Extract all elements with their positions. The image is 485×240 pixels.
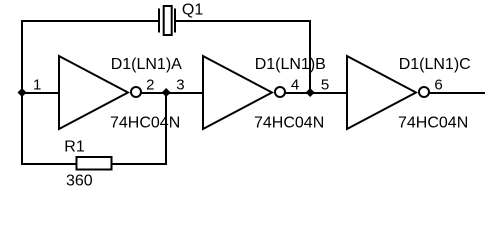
svg-text:2: 2: [146, 76, 154, 93]
svg-text:5: 5: [321, 76, 329, 93]
svg-text:6: 6: [434, 76, 442, 93]
svg-text:74HC04N: 74HC04N: [398, 115, 468, 132]
svg-text:74HC04N: 74HC04N: [110, 115, 180, 132]
svg-text:D1(LN1)A: D1(LN1)A: [111, 56, 182, 73]
wire bottom (through R1): [21, 163, 167, 165]
svg-text:74HC04N: 74HC04N: [254, 115, 324, 132]
wire top right (crystal to pin5 node): [175, 20, 311, 22]
wire net pin4-pin5: [285, 92, 348, 94]
svg-text:D1(LN1)B: D1(LN1)B: [255, 56, 326, 73]
wire top left (to crystal): [21, 20, 159, 22]
wire pin1 input net: [21, 92, 60, 94]
wire right vertical down to pin4-5 junction: [309, 20, 311, 94]
wire pin6 output net: [429, 92, 485, 94]
crystal Q1 left plate: [158, 9, 160, 33]
inverter U1A output bubble: [131, 87, 141, 97]
junction node pin3: [162, 88, 171, 97]
svg-text:1: 1: [33, 76, 41, 93]
crystal Q1 right plate: [174, 9, 176, 33]
op-amp inverter U1A triangle: [59, 56, 128, 129]
op-amp inverter U1C triangle: [347, 56, 416, 129]
svg-text:D1(LN1)C: D1(LN1)C: [399, 56, 471, 73]
resistor R1 body: [77, 157, 112, 170]
wire net pin2-pin3: [141, 92, 204, 94]
wire mid vertical (pin3 node down to R1): [165, 92, 167, 165]
junction node pin1: [18, 88, 27, 97]
svg-text:Q1: Q1: [182, 1, 203, 18]
inverter U1B output bubble: [275, 87, 285, 97]
op-amp inverter U1B triangle: [203, 56, 272, 129]
wire left vertical (pin1 node to top and bottom loops): [21, 20, 23, 165]
crystal Q1 body rectangle: [164, 6, 172, 35]
svg-text:4: 4: [291, 76, 299, 93]
svg-text:360: 360: [66, 173, 93, 190]
svg-text:3: 3: [176, 76, 184, 93]
junction node pin5: [306, 88, 315, 97]
inverter U1C output bubble: [419, 87, 429, 97]
svg-text:R1: R1: [64, 139, 85, 156]
